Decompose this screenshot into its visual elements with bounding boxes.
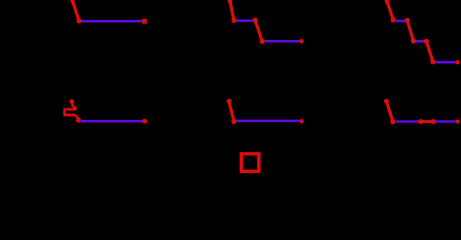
molecule 3 bottom: red highlighted bond	[421, 120, 434, 123]
molecule 3 top: blue bond 1	[396, 20, 405, 23]
molecule 2 top: right atom dot	[299, 39, 303, 43]
molecule 1 top: oxygen atom dot	[70, 0, 74, 3]
molecule 3 top: red bond 1	[387, 1, 393, 20]
molecule 2 top: blue bond 1	[237, 19, 253, 22]
molecule 2 bottom: right atom dot	[299, 119, 303, 123]
molecule 3 bottom: right atom dot	[456, 119, 460, 123]
molecule 1 bottom: short red bond from oxygen down	[72, 102, 73, 107]
molecule 3 top: red bond 3	[426, 41, 433, 61]
molecule 1 bottom: top oxygen dot of red group	[69, 99, 74, 104]
molecule 3 bottom: junction dot 1	[390, 119, 395, 124]
molecule 3 top: junction dot 1	[391, 17, 396, 22]
molecule 3 top: red bond 2	[407, 20, 413, 41]
molecule 2 top: red bond 2	[255, 20, 262, 41]
molecule 1 bottom: oxygen dot	[76, 118, 81, 123]
molecule 3 top: junction dot 4	[424, 39, 429, 44]
molecule 3 top: junction dot 5	[430, 59, 435, 64]
molecule 2 top: junction dot 1	[231, 18, 236, 23]
molecule 1 bottom: ring bottom bar	[63, 114, 76, 117]
molecule 2 top: junction dot 3	[260, 39, 265, 44]
molecule 3 bottom: junction dot 2	[418, 119, 423, 124]
molecule 1 bottom: ring top bar	[64, 108, 76, 110]
molecule 2 bottom: junction dot	[231, 119, 236, 124]
molecule 1 bottom: ring top-right corner nub	[73, 106, 77, 108]
molecule 1 bottom: right atom dot	[142, 119, 147, 124]
molecule 1 bottom: ring left bar	[63, 108, 66, 116]
molecule 3 bottom: oxygen atom dot	[384, 99, 389, 104]
molecule 2 bottom: blue bond	[237, 120, 300, 123]
molecule 2 top: red bond 1	[230, 1, 234, 20]
molecule 3 top: blue bond 2	[416, 40, 424, 43]
molecule 3 bottom: red bond 1	[386, 101, 393, 121]
molecule 3 top: junction dot 2	[405, 18, 410, 23]
molecule 1 bottom: red bond down to oxygen	[76, 116, 78, 119]
molecule 3 top: junction dot 3	[411, 38, 416, 43]
molecule 1 top: highlighted C-C bond (blue)	[82, 20, 143, 23]
molecule 1 top: right atom dot (square)	[142, 19, 147, 24]
molecule 1 top: red O-C bond	[73, 1, 79, 21]
molecule 2 top: junction dot 2	[253, 18, 258, 23]
molecule 3 top: right atom dot	[455, 60, 459, 64]
molecule 3 top: blue bond 3	[436, 61, 456, 64]
molecule 1 bottom: ring right corner step	[75, 107, 77, 110]
molecule 2 top: oxygen atom dot	[228, 0, 233, 4]
molecule 3 top: oxygen atom dot	[385, 0, 390, 4]
molecule 3 bottom: junction dot 3	[431, 119, 436, 124]
molecule 2 bottom: red bond	[229, 101, 234, 121]
molecule 1 top: junction atom dot	[76, 18, 81, 23]
molecule 1 bottom: highlighted C-C bond (blue)	[81, 120, 142, 123]
molecule 2 top: blue bond 2	[265, 40, 299, 43]
molecule 3 bottom: blue bond 2	[436, 120, 456, 123]
molecule 3 bottom: blue bond 1	[396, 120, 420, 123]
cyclobutane ring highlighted red (square)	[241, 154, 259, 172]
molecule 2 bottom: oxygen atom dot	[227, 99, 232, 104]
